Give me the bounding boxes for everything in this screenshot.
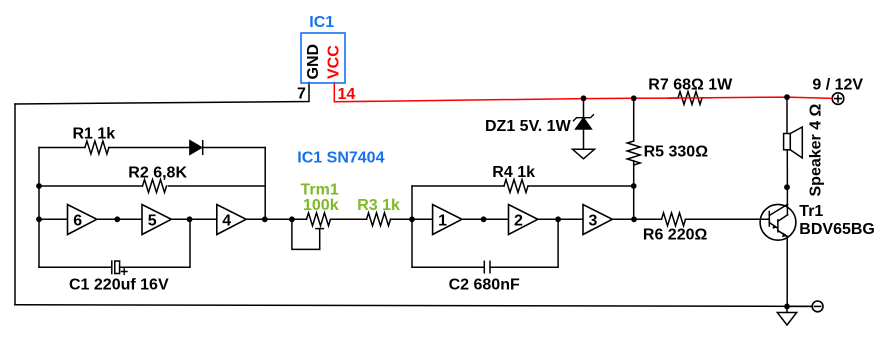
svg-text:GND: GND bbox=[305, 44, 322, 80]
node speaker top bbox=[784, 94, 790, 100]
svg-text:Tr1: Tr1 bbox=[799, 203, 823, 220]
svg-text:BDV65BG: BDV65BG bbox=[799, 221, 875, 238]
node R4-R5 bbox=[631, 183, 637, 189]
wire left border vertical bbox=[14, 104, 16, 305]
svg-text:R5 330Ω: R5 330Ω bbox=[644, 144, 709, 161]
wire R4 row left bbox=[412, 185, 504, 187]
wire R1 to diode bbox=[109, 147, 190, 149]
wire diode to right vertical bbox=[203, 147, 266, 149]
node speaker bottom bbox=[784, 184, 790, 190]
wire main row to gate 6 bbox=[39, 218, 68, 220]
svg-text:R3 1k: R3 1k bbox=[357, 197, 400, 214]
svg-text:IC1: IC1 bbox=[309, 14, 334, 31]
ground symbol under DZ1 bbox=[573, 149, 595, 159]
node gate1 out bbox=[481, 216, 487, 222]
wire C1 right to gate5 output bbox=[120, 219, 190, 267]
wire R1 row left bbox=[39, 147, 85, 149]
node R5 top bbox=[631, 95, 637, 101]
resistor R7 bbox=[678, 92, 702, 105]
wire C1 row left bbox=[39, 266, 112, 268]
svg-text:DZ1 5V. 1W: DZ1 5V. 1W bbox=[485, 118, 572, 135]
svg-text:R1 1k: R1 1k bbox=[73, 126, 116, 143]
svg-text:VCC: VCC bbox=[326, 45, 343, 79]
zener DZ1 bbox=[583, 98, 585, 117]
wire gate1 to gate2 bbox=[462, 218, 509, 220]
transistor Tr1 bbox=[760, 204, 796, 240]
inverter U2 bbox=[509, 205, 538, 235]
diode D1 bbox=[190, 141, 202, 155]
plus terminal bbox=[832, 93, 844, 105]
wire C2 right riser bbox=[490, 219, 558, 267]
wire trimmer wiper loop bbox=[292, 219, 320, 249]
wire speaker to collector bbox=[786, 150, 788, 215]
wire right vertical of feedback loop bbox=[264, 148, 266, 220]
svg-text:2: 2 bbox=[514, 212, 523, 229]
wire left inner vertical bbox=[38, 148, 40, 268]
wire gate4 to trimmer bbox=[246, 218, 306, 220]
svg-text:6: 6 bbox=[73, 212, 82, 229]
svg-text:IC1 SN7404: IC1 SN7404 bbox=[297, 150, 384, 167]
svg-text:5: 5 bbox=[148, 212, 157, 229]
wire gate3 to R6 bbox=[612, 218, 661, 220]
inverter U3 bbox=[583, 205, 612, 235]
ground symbol at emitter bbox=[786, 306, 788, 312]
resistor R6 bbox=[662, 213, 686, 226]
resistor R2 bbox=[143, 180, 167, 193]
R7 redrawn over red bbox=[301, 33, 345, 83]
node gate4 out bbox=[262, 216, 268, 222]
inverter U4 bbox=[217, 205, 246, 235]
node gate1 in bbox=[409, 216, 415, 222]
wire R3 to gate1 bbox=[391, 218, 433, 220]
wire R4/C2 left riser bbox=[411, 186, 413, 267]
wire trimmer to R3 bbox=[331, 218, 367, 220]
svg-text:3: 3 bbox=[589, 212, 598, 229]
IC1 power box bbox=[301, 33, 345, 83]
node gate5 out bbox=[187, 216, 193, 222]
capacitor C1 bbox=[111, 261, 113, 274]
wire R5 junction down to main row bbox=[633, 98, 635, 141]
inverter U1 bbox=[433, 205, 462, 235]
node emitter ground bbox=[784, 304, 790, 310]
node gate6 out bbox=[114, 216, 120, 222]
resistor R5 bbox=[627, 141, 640, 165]
svg-text:9 / 12V: 9 / 12V bbox=[812, 76, 863, 93]
node main-left bbox=[36, 216, 42, 222]
svg-text:14: 14 bbox=[338, 86, 356, 103]
wire gate2 to gate3 bbox=[538, 218, 583, 220]
wire R6 to transistor base bbox=[686, 218, 770, 220]
svg-text:C2 680nF: C2 680nF bbox=[449, 277, 520, 294]
speaker SP1 bbox=[784, 134, 791, 150]
trimmer wiper bbox=[316, 228, 323, 230]
wire C2 bottom row bbox=[412, 266, 484, 268]
resistor R1 bbox=[85, 141, 109, 154]
capacitor C2 bbox=[483, 261, 485, 273]
node gate3 out bbox=[631, 216, 637, 222]
svg-text:7: 7 bbox=[297, 86, 306, 103]
wire bottom ground rail bbox=[15, 305, 812, 307]
svg-text:C1 220uf 16V: C1 220uf 16V bbox=[69, 277, 169, 294]
svg-text:4: 4 bbox=[222, 212, 231, 229]
wire VCC rail (red) bbox=[334, 83, 832, 102]
wire to minus terminal bbox=[787, 305, 812, 307]
trimmer Trm1 bbox=[307, 213, 331, 226]
resistor R4 bbox=[504, 180, 528, 193]
svg-text:R6 220Ω: R6 220Ω bbox=[643, 226, 708, 243]
wire R2 to right vertical bbox=[169, 185, 266, 187]
wire pin7 down-left bbox=[15, 83, 309, 105]
inverter U6 bbox=[68, 205, 97, 235]
resistor R3 bbox=[367, 213, 391, 226]
node R2-left bbox=[36, 183, 42, 189]
wire R2 row left bbox=[39, 185, 143, 187]
wire emitter down bbox=[786, 236, 788, 306]
svg-text:100k: 100k bbox=[303, 197, 339, 214]
node trimmer tap bbox=[289, 216, 295, 222]
svg-text:R2 6,8K: R2 6,8K bbox=[128, 165, 187, 182]
R7 leads bbox=[669, 97, 679, 99]
wire speaker branch from rail bbox=[786, 97, 788, 133]
svg-text:Speaker 4 Ω: Speaker 4 Ω bbox=[807, 103, 824, 196]
svg-text:R4 1k: R4 1k bbox=[492, 164, 535, 181]
wire gate5 to gate4 bbox=[171, 218, 217, 220]
wire R4 to R5 junction bbox=[528, 185, 634, 187]
node DZ1 top bbox=[581, 95, 587, 101]
wire gate6 to gate5 bbox=[97, 218, 142, 220]
minus terminal bbox=[812, 301, 823, 312]
svg-text:R7 68Ω 1W: R7 68Ω 1W bbox=[648, 76, 733, 93]
inverter U5 bbox=[142, 205, 171, 235]
svg-text:1: 1 bbox=[438, 212, 447, 229]
node gate2 out bbox=[555, 216, 561, 222]
